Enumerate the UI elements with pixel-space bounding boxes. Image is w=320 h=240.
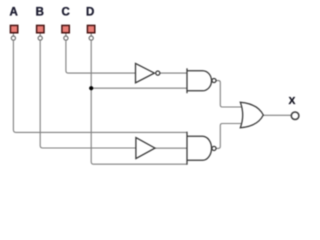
wire D to NAND2 bottom input — [91, 41, 187, 165]
NAND gate U3 (top) — [187, 68, 216, 93]
NAND gate U4 (bottom) — [187, 132, 216, 165]
wire B to buffer input — [40, 41, 136, 148]
buffer U2 — [136, 138, 155, 159]
wire NOT output to NAND1 upper input — [160, 72, 187, 74]
svg-text:X: X — [289, 96, 296, 107]
NOT gate U1 — [136, 63, 160, 82]
OR gate U5 — [240, 102, 263, 128]
wire C to NOT input — [66, 41, 136, 73]
input switch D — [87, 25, 94, 40]
wire A to NAND2 top input — [13, 41, 187, 133]
output pin X circle — [291, 112, 299, 120]
svg-text:C: C — [62, 7, 70, 19]
wire NAND1 output to OR upper input — [216, 81, 244, 107]
input switch C — [62, 25, 69, 40]
wire D branch to NAND1 lower input — [91, 87, 187, 89]
wire buffer output to NAND2 middle input — [155, 147, 187, 149]
wire OR output to pin X — [263, 114, 291, 116]
input switch A — [10, 25, 17, 40]
svg-text:A: A — [9, 7, 17, 19]
junction dot on D — [89, 86, 93, 90]
svg-text:B: B — [36, 7, 44, 19]
svg-text:D: D — [86, 7, 94, 19]
wire NAND2 output to OR lower input — [216, 124, 244, 149]
input switch B — [37, 25, 44, 40]
